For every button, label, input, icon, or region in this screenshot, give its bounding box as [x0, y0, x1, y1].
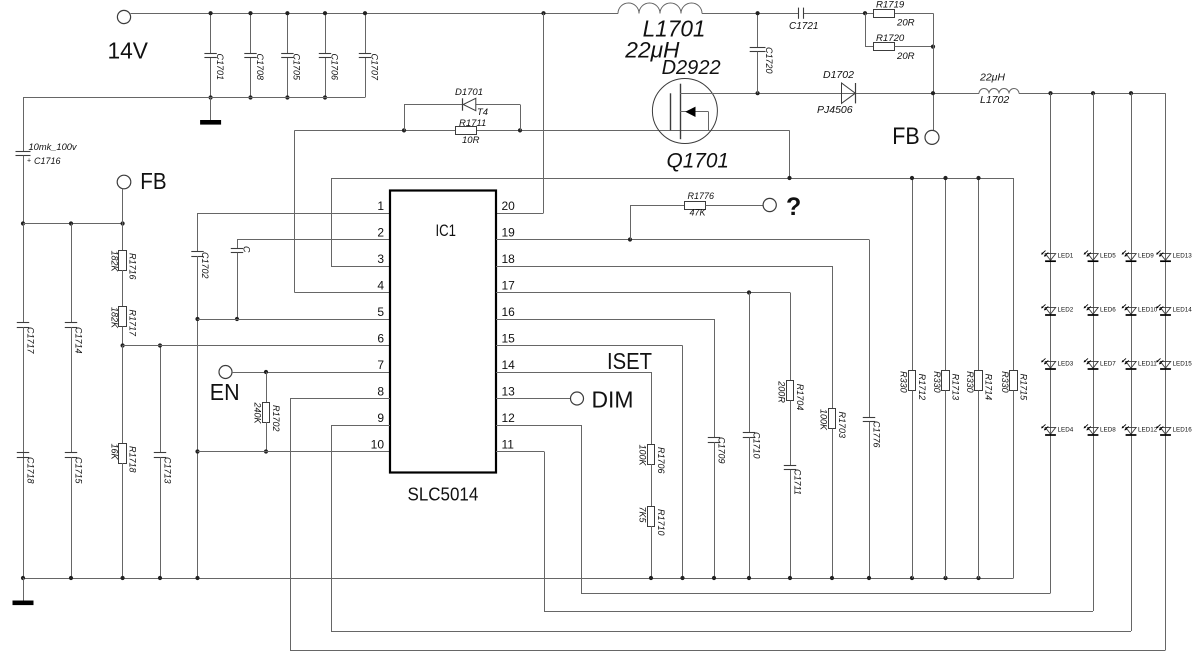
resistor R1710	[648, 507, 655, 527]
svg-text:18: 18	[502, 252, 516, 266]
svg-text:C1718: C1718	[26, 457, 36, 484]
capacitor C1713	[160, 346, 162, 453]
node pin6 left junction	[121, 343, 125, 347]
LED LED11	[1126, 361, 1136, 368]
resistor R1704	[790, 293, 792, 381]
svg-text:R1711: R1711	[459, 118, 486, 129]
junction dots input rail bottom	[209, 95, 213, 99]
node FB left junction	[21, 221, 25, 225]
resistor R1703	[832, 266, 834, 409]
capacitor C1702	[197, 213, 199, 252]
svg-text:L1702: L1702	[980, 94, 1009, 106]
resistor R1718	[122, 346, 124, 444]
wire pin9 route	[331, 425, 390, 427]
svg-text:C1717: C1717	[26, 327, 36, 355]
svg-text:R1714: R1714	[983, 374, 993, 401]
wire top rail right	[804, 13, 933, 15]
svg-text:16: 16	[502, 305, 516, 319]
svg-text:100K: 100K	[819, 409, 829, 431]
wire FB terminal drop	[122, 189, 124, 224]
svg-text:SLC5014: SLC5014	[408, 483, 479, 504]
svg-text:+: +	[27, 158, 31, 165]
LED LED10	[1126, 307, 1136, 314]
node pin5 C1702 junction	[195, 317, 199, 321]
node gate right junction	[518, 128, 522, 132]
svg-text:13: 13	[502, 384, 516, 398]
svg-text:R330: R330	[1000, 371, 1010, 393]
wire pin16 line	[496, 319, 714, 321]
resistor R1713	[945, 178, 947, 371]
svg-text:C1705: C1705	[292, 54, 302, 82]
inductor L1701	[618, 3, 702, 14]
svg-text:R1717: R1717	[127, 310, 137, 338]
svg-text:R1704: R1704	[795, 384, 805, 411]
op-amp IC1 body	[390, 191, 496, 473]
resistor R1714	[978, 178, 980, 371]
svg-text:R1716: R1716	[127, 253, 137, 280]
svg-text:16K: 16K	[109, 444, 119, 461]
svg-text:240K: 240K	[253, 402, 263, 425]
wire pin17 line	[496, 292, 790, 294]
LED LED4	[1045, 427, 1055, 434]
svg-text:C1702: C1702	[200, 252, 210, 279]
svg-text:LED5: LED5	[1100, 253, 1116, 260]
svg-text:ISET: ISET	[607, 348, 652, 374]
svg-text:22μH: 22μH	[979, 72, 1005, 84]
resistor R1719	[874, 10, 895, 18]
wire pin4 line	[295, 292, 391, 294]
svg-text:10mk_100v: 10mk_100v	[29, 142, 78, 152]
svg-text:15: 15	[502, 331, 516, 345]
capacitor C1721	[798, 8, 800, 19]
svg-text:C1709: C1709	[717, 437, 727, 464]
svg-text:C1776: C1776	[872, 421, 882, 448]
wire pin19 line	[496, 239, 869, 241]
svg-text:7K5: 7K5	[638, 507, 648, 524]
svg-text:LED13: LED13	[1173, 253, 1193, 260]
svg-text:R1703: R1703	[837, 412, 847, 439]
capacitor C1711	[784, 465, 796, 467]
svg-text:R1720: R1720	[876, 33, 905, 44]
svg-text:LED14: LED14	[1173, 307, 1193, 314]
svg-text:R1706: R1706	[656, 447, 666, 474]
inductor L1702	[979, 89, 1019, 94]
svg-text:LED3: LED3	[1058, 361, 1074, 368]
wire pin11 route	[496, 451, 544, 453]
svg-text:EN: EN	[210, 379, 240, 405]
svg-text:10R: 10R	[462, 135, 480, 146]
capacitor C1716	[16, 151, 31, 153]
capacitor C1776	[869, 240, 871, 418]
node snubber rail junction	[931, 91, 935, 95]
svg-text:LED8: LED8	[1100, 427, 1116, 434]
svg-text:T4: T4	[477, 107, 488, 118]
svg-text:D1701: D1701	[455, 87, 483, 98]
terminal DIM	[571, 392, 584, 405]
wire 14V top rail	[131, 13, 618, 15]
svg-text:LED7: LED7	[1100, 361, 1116, 368]
capacitor C1705	[287, 13, 289, 53]
svg-text:R1713: R1713	[950, 374, 960, 401]
svg-text:C1701: C1701	[215, 54, 225, 81]
diode D1702	[842, 83, 856, 103]
LED LED15	[1160, 361, 1170, 368]
svg-text:14V: 14V	[108, 38, 149, 64]
svg-text:R330: R330	[932, 371, 942, 393]
wire pin10 line	[198, 451, 391, 453]
svg-text:LED12: LED12	[1138, 427, 1158, 434]
resistor R1712	[912, 178, 914, 371]
wire pin1 line	[198, 213, 391, 215]
svg-text:14: 14	[502, 358, 516, 372]
node pin10 C1702 junction	[195, 449, 199, 453]
wire pin7 line	[232, 372, 390, 374]
svg-text:1: 1	[377, 199, 384, 213]
svg-text:20: 20	[502, 199, 516, 213]
svg-text:C1710: C1710	[752, 432, 762, 459]
LED LED3	[1045, 361, 1055, 368]
wire pin15 line	[496, 345, 683, 347]
wire source sense line	[331, 178, 1014, 180]
resistor R1702	[266, 372, 268, 402]
svg-text:11: 11	[502, 437, 515, 451]
svg-text:182K: 182K	[109, 307, 119, 329]
wire pin8 route	[290, 398, 390, 400]
capacitor C1720	[757, 13, 759, 47]
svg-text:10: 10	[371, 437, 385, 451]
wire pin12 route	[496, 425, 581, 427]
svg-text:7: 7	[377, 358, 384, 372]
capacitor C1707	[365, 13, 367, 53]
svg-text:3: 3	[377, 252, 384, 266]
svg-text:182K: 182K	[109, 251, 119, 273]
svg-text:C1713: C1713	[163, 457, 173, 484]
LED LED12	[1126, 427, 1136, 434]
LED LED5	[1088, 254, 1098, 261]
svg-text:2: 2	[377, 225, 384, 239]
svg-text:R1776: R1776	[688, 191, 715, 201]
svg-text:Q1701: Q1701	[667, 150, 730, 173]
LED LED14	[1160, 307, 1170, 314]
LED LED16	[1160, 427, 1170, 434]
svg-text:100K: 100K	[638, 445, 648, 467]
svg-text:DIM: DIM	[592, 387, 634, 413]
svg-text:C1711: C1711	[793, 469, 803, 495]
resistor R1706	[651, 372, 653, 444]
capacitor C1701	[210, 13, 212, 53]
svg-text:LED1: LED1	[1058, 253, 1074, 260]
LED LED2	[1045, 307, 1055, 314]
svg-text:R330: R330	[899, 371, 909, 393]
svg-text:C1715: C1715	[74, 457, 84, 485]
svg-text:9: 9	[377, 411, 384, 425]
svg-text:R1710: R1710	[656, 509, 666, 536]
svg-text:R1718: R1718	[127, 446, 137, 473]
svg-text:C1716: C1716	[34, 156, 61, 166]
wire LED column x1131	[1131, 93, 1133, 631]
capacitor C1706	[325, 13, 327, 53]
terminal ?	[763, 198, 776, 211]
resistor R1711	[456, 127, 477, 135]
resistor R1716	[122, 224, 124, 251]
svg-text:5: 5	[377, 305, 384, 319]
resistor R1720	[865, 13, 867, 46]
wire pin2 line	[237, 239, 390, 241]
capacitor C1714	[71, 224, 73, 323]
wire pin13 line	[496, 398, 571, 400]
svg-text:12: 12	[502, 411, 516, 425]
wire top rail mid	[702, 13, 798, 15]
svg-text:IC1: IC1	[436, 221, 457, 240]
svg-text:LED16: LED16	[1173, 427, 1193, 434]
LED LED7	[1088, 361, 1098, 368]
wire LED column x1093	[1093, 93, 1095, 611]
wire pin3 line	[331, 266, 390, 268]
resistor R1715	[1013, 178, 1015, 371]
node gate left junction	[402, 128, 406, 132]
diode D1701	[404, 105, 406, 131]
svg-text:FB: FB	[140, 168, 166, 194]
svg-text:PJ4506: PJ4506	[817, 104, 853, 116]
capacitor C	[237, 240, 239, 249]
wire drain rail	[758, 93, 979, 95]
svg-text:17: 17	[502, 278, 516, 292]
svg-text:C1721: C1721	[789, 21, 818, 32]
wire pin5 line	[198, 319, 391, 321]
wire LED column x1050	[1050, 93, 1052, 593]
svg-text:FB: FB	[892, 123, 919, 150]
svg-text:47K: 47K	[690, 208, 707, 218]
capacitor C1717	[23, 224, 25, 323]
svg-text:R1715: R1715	[1018, 374, 1028, 402]
svg-text:D1702: D1702	[823, 69, 854, 81]
terminal 14V input	[117, 10, 130, 23]
svg-text:?: ?	[786, 193, 801, 221]
resistor R1776	[630, 205, 632, 240]
svg-text:4: 4	[377, 278, 384, 292]
svg-text:R1719: R1719	[876, 0, 905, 11]
svg-text:C1720: C1720	[764, 47, 774, 74]
svg-text:C1707: C1707	[369, 54, 379, 82]
capacitor C1718	[17, 452, 29, 454]
svg-text:LED9: LED9	[1138, 253, 1154, 260]
svg-text:20R: 20R	[896, 51, 915, 62]
wire pin6 line	[123, 345, 390, 347]
svg-text:R1712: R1712	[917, 374, 927, 401]
LED LED13	[1160, 254, 1170, 261]
ground input filter	[210, 98, 212, 121]
transistor Q1701	[652, 79, 717, 144]
svg-text:8: 8	[377, 384, 384, 398]
wire LED column x1165	[1165, 93, 1167, 650]
wire output rail	[1019, 93, 1166, 95]
terminal FB left	[117, 175, 131, 189]
capacitor C1709	[714, 319, 716, 438]
wire pin18 line	[496, 266, 832, 268]
svg-text:LED6: LED6	[1100, 307, 1116, 314]
wire FB node line	[23, 223, 123, 225]
svg-text:R330: R330	[965, 371, 975, 393]
svg-text:200R: 200R	[777, 380, 787, 403]
svg-text:LED4: LED4	[1058, 427, 1074, 434]
wire left column upper	[23, 98, 25, 152]
svg-text:R1702: R1702	[271, 405, 281, 432]
svg-text:C1706: C1706	[329, 54, 339, 81]
terminal FB right	[925, 130, 939, 144]
svg-text:C1714: C1714	[74, 327, 84, 354]
svg-text:LED10: LED10	[1138, 307, 1158, 314]
LED LED1	[1045, 254, 1055, 261]
svg-text:22μH: 22μH	[624, 38, 680, 63]
LED LED9	[1126, 254, 1136, 261]
wire pin14 line	[496, 372, 651, 374]
svg-text:LED11: LED11	[1138, 361, 1157, 368]
wire input caps bottom rail	[23, 97, 365, 99]
svg-text:LED15: LED15	[1173, 361, 1193, 368]
wire ground bus	[23, 578, 1014, 580]
capacitor C1715	[71, 327, 73, 453]
svg-text:C: C	[242, 246, 252, 253]
capacitor C1708	[250, 13, 252, 53]
wire snubber right column	[933, 13, 935, 130]
svg-text:LED2: LED2	[1058, 307, 1074, 314]
resistor R1717	[122, 270, 124, 307]
LED LED6	[1088, 307, 1098, 314]
LED LED8	[1088, 427, 1098, 434]
ground bottom left	[23, 578, 25, 601]
svg-text:19: 19	[502, 225, 516, 239]
svg-text:20R: 20R	[896, 18, 915, 29]
wire pin20 line	[496, 213, 544, 215]
wire gate line	[295, 130, 790, 132]
terminal EN	[219, 366, 232, 379]
svg-text:C1708: C1708	[255, 54, 265, 81]
capacitor C1710	[749, 293, 751, 433]
svg-text:6: 6	[377, 331, 384, 345]
